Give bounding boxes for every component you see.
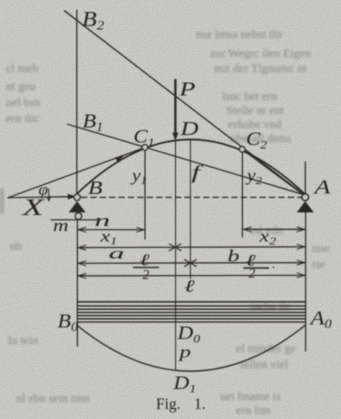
svg-text:m: m bbox=[53, 217, 69, 235]
svg-text:A: A bbox=[312, 176, 331, 198]
svg-text:el minder ge: el minder ge bbox=[236, 341, 296, 355]
svg-text:nt geu: nt geu bbox=[6, 79, 36, 93]
svg-text:D: D bbox=[179, 117, 198, 139]
svg-text:2: 2 bbox=[249, 266, 256, 281]
svg-text:1.: 1. bbox=[194, 396, 206, 413]
svg-text:nillen viel: nillen viel bbox=[240, 357, 289, 371]
svg-text:uel bsn: uel bsn bbox=[6, 95, 40, 109]
svg-text:Fig.: Fig. bbox=[156, 396, 181, 413]
svg-text:nur lmsa nebst ilir: nur lmsa nebst ilir bbox=[196, 27, 283, 41]
svg-text:b: b bbox=[228, 248, 240, 266]
svg-text:zur Wegrc ilen Eigen: zur Wegrc ilen Eigen bbox=[210, 46, 311, 60]
svg-text:φ: φ bbox=[39, 180, 48, 199]
svg-text:ℓ: ℓ bbox=[184, 277, 195, 296]
svg-text:uet bname ts: uet bname ts bbox=[220, 389, 281, 403]
svg-text:P: P bbox=[178, 78, 195, 100]
svg-text:nb: nb bbox=[10, 239, 22, 253]
svg-text:mit der Tlgnumc nt: mit der Tlgnumc nt bbox=[214, 61, 307, 75]
svg-text:a: a bbox=[109, 245, 125, 263]
svg-text:p: p bbox=[177, 343, 191, 362]
svg-text:nne: nne bbox=[312, 241, 329, 255]
svg-text:lsnc bet ern: lsnc bet ern bbox=[222, 89, 277, 103]
svg-text:Stelle nr ent: Stelle nr ent bbox=[226, 103, 285, 117]
svg-text:nl ebn sein tmn: nl ebn sein tmn bbox=[16, 391, 90, 405]
svg-text:X: X bbox=[21, 195, 45, 220]
svg-text:cl meb: cl meb bbox=[6, 61, 38, 75]
svg-text:tse: tse bbox=[312, 257, 325, 271]
svg-text:lu tein: lu tein bbox=[8, 333, 38, 347]
svg-text:ern lim: ern lim bbox=[236, 403, 271, 417]
svg-text:B: B bbox=[88, 177, 103, 198]
svg-text:2: 2 bbox=[143, 267, 150, 282]
svg-text:ern tlic: ern tlic bbox=[6, 111, 40, 125]
